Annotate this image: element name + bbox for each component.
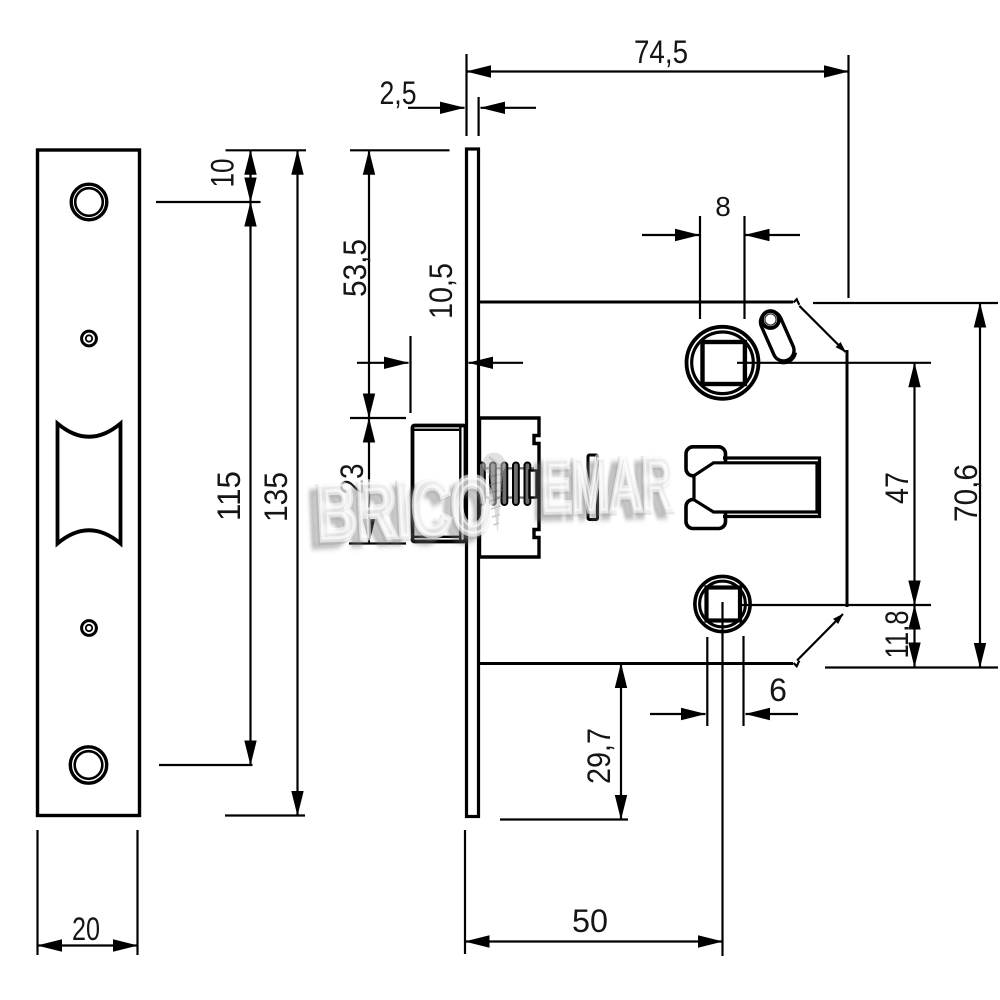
svg-text:BRICO: BRICO xyxy=(315,459,496,558)
svg-text:20: 20 xyxy=(72,911,100,947)
svg-text:74,5: 74,5 xyxy=(634,34,688,70)
svg-text:53,5: 53,5 xyxy=(337,239,373,297)
svg-text:115: 115 xyxy=(211,471,247,521)
svg-text:135: 135 xyxy=(258,472,294,522)
svg-text:6: 6 xyxy=(769,672,787,708)
svg-text:47: 47 xyxy=(879,472,915,504)
svg-text:50: 50 xyxy=(572,903,608,939)
svg-text:11,8: 11,8 xyxy=(879,611,915,659)
svg-text:8: 8 xyxy=(715,191,731,222)
svg-text:2,5: 2,5 xyxy=(380,75,417,111)
svg-text:70,6: 70,6 xyxy=(948,464,984,522)
svg-text:10,5: 10,5 xyxy=(423,263,459,319)
svg-text:29,7: 29,7 xyxy=(581,728,617,784)
svg-text:10: 10 xyxy=(205,159,241,188)
svg-text:EMAR: EMAR xyxy=(541,438,676,529)
